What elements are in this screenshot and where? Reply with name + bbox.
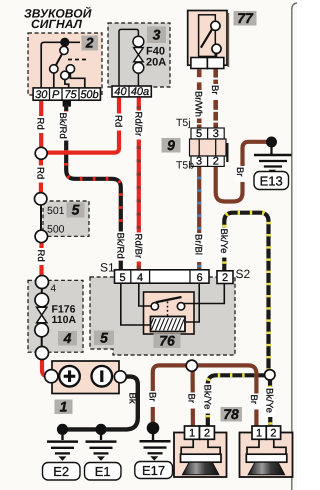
wire label Rd/Br bbox=[132, 111, 144, 140]
svg-text:50b: 50b bbox=[80, 89, 98, 101]
svg-text:3: 3 bbox=[196, 156, 202, 168]
component label 9 bbox=[162, 138, 181, 153]
component label 78 bbox=[221, 407, 243, 422]
fuse F40 internals bbox=[119, 29, 138, 86]
component label 3 bbox=[147, 27, 166, 44]
horn 1 box bbox=[174, 433, 227, 478]
svg-text:1: 1 bbox=[60, 398, 68, 414]
svg-text:Br: Br bbox=[234, 167, 245, 177]
E13 box bbox=[254, 172, 289, 190]
horn switch 77 body bbox=[188, 11, 227, 66]
svg-text:3: 3 bbox=[213, 128, 219, 140]
svg-text:110A: 110A bbox=[52, 314, 77, 326]
terminal circle fuse501 bottom bbox=[35, 230, 47, 242]
wire Bk/Ye relay pin2 to junction bbox=[224, 213, 268, 370]
svg-text:5: 5 bbox=[72, 202, 80, 218]
svg-text:Rd: Rd bbox=[35, 250, 46, 262]
svg-text:4: 4 bbox=[51, 284, 57, 295]
connector 9 T5j pin row bbox=[191, 128, 224, 139]
svg-text:Br/Wh: Br/Wh bbox=[193, 91, 204, 117]
switch arm bbox=[56, 54, 62, 65]
junction circle BkYe bus bbox=[265, 370, 275, 380]
wire label Br bbox=[146, 391, 158, 407]
svg-text:3: 3 bbox=[153, 27, 161, 43]
ground E1 symbol bbox=[100, 429, 102, 440]
wire Bk/Rd switch pin75 to relay pin5 bbox=[66, 104, 121, 270]
terminal circle fuse501 top bbox=[35, 193, 47, 205]
wire label Bk/Rd bbox=[57, 112, 69, 141]
svg-text:P: P bbox=[52, 89, 60, 101]
svg-text:Br/Bl: Br/Bl bbox=[193, 234, 204, 255]
relay 76 inner box bbox=[144, 292, 195, 334]
connector 9 body bbox=[226, 143, 228, 162]
wire label Rd/Br bbox=[132, 233, 144, 262]
svg-text:Bk/Ye: Bk/Ye bbox=[263, 388, 274, 413]
relay wiring pin5 to coil left bbox=[121, 283, 151, 325]
svg-text:6: 6 bbox=[196, 272, 202, 284]
wire Br junction drop to horn1 pin1 bbox=[191, 370, 195, 426]
svg-text:E2: E2 bbox=[53, 464, 69, 479]
svg-text:5: 5 bbox=[196, 128, 202, 140]
node dot switch 2 bbox=[60, 38, 69, 47]
wire Br/Bl T5b pin3 to relay pin6 bbox=[197, 166, 201, 270]
fuse F176 symbol bbox=[36, 276, 49, 289]
component label 77 bbox=[234, 11, 257, 26]
E17 box bbox=[135, 462, 173, 479]
horn 2 pin boxes bbox=[252, 426, 266, 439]
svg-text:5: 5 bbox=[100, 329, 108, 345]
junction circle Br bus bbox=[186, 360, 197, 371]
svg-text:Bk/Ye: Bk/Ye bbox=[218, 229, 229, 254]
wire contact E to pin 75 bbox=[65, 80, 69, 89]
contact circle D bbox=[66, 65, 74, 73]
wire Br ground bus E17 to horn2 pin1 bbox=[153, 365, 257, 426]
switch 77 pin boxes bbox=[191, 58, 208, 69]
svg-text:E13: E13 bbox=[260, 174, 283, 189]
battery plus symbol bbox=[59, 366, 80, 387]
relay connector strip bbox=[115, 270, 210, 283]
wire Br switch77 to T5j pin3 bbox=[213, 68, 218, 128]
relay wiring pin4 to contact L bbox=[139, 283, 152, 306]
E1 box bbox=[85, 463, 122, 481]
wire Br/Wh switch77 to T5j pin5 bbox=[197, 69, 202, 77]
svg-text:40: 40 bbox=[114, 86, 127, 98]
svg-text:4: 4 bbox=[63, 330, 72, 346]
svg-text:30: 30 bbox=[35, 89, 48, 101]
component label 2 bbox=[82, 36, 99, 51]
pin strip F40 bbox=[112, 86, 151, 97]
svg-text:СИГНАЛ: СИГНАЛ bbox=[31, 17, 83, 31]
wire contact B to pin P bbox=[53, 73, 55, 88]
svg-text:Bk/Rd: Bk/Rd bbox=[114, 233, 125, 259]
wire Rd fuse 501 to F176 bbox=[39, 242, 43, 277]
svg-text:1: 1 bbox=[189, 428, 195, 440]
svg-text:20A: 20A bbox=[146, 57, 166, 69]
wire Rd/Br F40 pin 40a to relay pin4 bbox=[137, 97, 141, 270]
component label 5 relay plate bbox=[94, 331, 114, 346]
ground E2 symbol bbox=[61, 429, 63, 440]
ground dot E17 bbox=[147, 422, 160, 435]
contact circle B bbox=[50, 65, 58, 73]
svg-text:77: 77 bbox=[237, 10, 254, 26]
svg-text:500: 500 bbox=[47, 224, 65, 236]
wire label Br bbox=[248, 394, 260, 410]
wire label Bk/Ye bbox=[218, 228, 230, 258]
wire Rd junction to fuse 501 bbox=[39, 159, 43, 195]
svg-text:Br: Br bbox=[146, 392, 157, 402]
wire Bk/Ye junction to horn2 pin2 bbox=[268, 380, 272, 427]
connector 9 T5b pin row bbox=[191, 156, 224, 166]
svg-text:E17: E17 bbox=[142, 463, 165, 478]
wire Bk/Ye junction to horn1 pin2 bbox=[208, 375, 265, 426]
fuse F176 box 4 dashed bbox=[28, 280, 83, 352]
ground E17 symbol bbox=[152, 428, 154, 440]
fuse 501 link bbox=[40, 205, 42, 231]
relay actuation dotted bbox=[167, 302, 169, 317]
svg-text:2: 2 bbox=[270, 428, 276, 440]
wire label Br bbox=[209, 84, 221, 100]
wire label Br bbox=[234, 166, 246, 182]
battery terminal right bbox=[114, 371, 126, 383]
relay contact R bbox=[177, 303, 184, 310]
wire label Rd bbox=[113, 114, 125, 131]
svg-text:501: 501 bbox=[47, 205, 65, 217]
svg-text:Rd: Rd bbox=[35, 118, 46, 130]
ground dot E1 bbox=[95, 424, 106, 435]
mechanical linkage dashed bbox=[68, 59, 88, 61]
wire Rd F176 to battery plus bbox=[42, 359, 48, 376]
component label 1 bbox=[55, 400, 73, 415]
component label 4 bbox=[58, 331, 77, 346]
svg-text:76: 76 bbox=[159, 332, 175, 348]
fuse 501/500 box dashed bbox=[43, 201, 89, 236]
wire label Rd bbox=[35, 166, 47, 183]
pin strip switch 2 bbox=[33, 88, 100, 100]
component label 5 fuse holder bbox=[67, 203, 85, 218]
relay pin2 box S2 bbox=[217, 271, 233, 284]
svg-text:Br: Br bbox=[248, 395, 259, 405]
wire Rd junction to F40 pin 40 bbox=[46, 97, 119, 153]
switch 77 arm bbox=[201, 28, 213, 48]
wire label Bk bbox=[126, 393, 137, 404]
wire Bk battery minus to ground bus E2/E1 bbox=[62, 377, 138, 430]
relay wiring pin6 to coil right bbox=[185, 283, 200, 322]
ground dot E2 bbox=[57, 424, 68, 435]
horn 2 box bbox=[240, 433, 293, 478]
relay wiring pin2 to contact R bbox=[182, 283, 225, 304]
wire label Br/Wh bbox=[193, 91, 205, 118]
svg-text:Br: Br bbox=[209, 85, 220, 95]
svg-text:S2: S2 bbox=[236, 267, 251, 281]
svg-text:Bk/Ye: Bk/Ye bbox=[201, 385, 212, 410]
switch 77 contact bottom bbox=[212, 44, 221, 53]
horn 1 pin boxes bbox=[185, 426, 200, 439]
svg-text:Rd: Rd bbox=[113, 115, 124, 127]
svg-text:4: 4 bbox=[137, 272, 143, 284]
switch 77 contact top bbox=[211, 21, 220, 30]
svg-text:40a: 40a bbox=[131, 86, 149, 98]
wire contact D to pin 50b bbox=[70, 73, 84, 88]
wire Rd pin30 to junction bbox=[39, 100, 43, 149]
ground E13 symbol bbox=[270, 147, 272, 154]
fuse symbol F40 bbox=[133, 36, 144, 47]
battery terminal left bbox=[45, 370, 58, 383]
svg-text:T5b: T5b bbox=[176, 160, 194, 172]
svg-text:9: 9 bbox=[167, 137, 175, 153]
svg-text:5: 5 bbox=[119, 272, 125, 284]
junction node red 3-way bbox=[35, 147, 47, 159]
fuse F40 box 3 dashed bbox=[108, 23, 170, 87]
wire label Bk/Rd bbox=[114, 232, 126, 261]
svg-text:Bk/Rd: Bk/Rd bbox=[57, 113, 68, 139]
wire label Bk/Ye bbox=[263, 387, 275, 417]
wire label Br/Bl bbox=[193, 233, 205, 262]
contact circle A bbox=[60, 46, 68, 54]
svg-text:Rd: Rd bbox=[35, 167, 46, 179]
ignition switch 2 internals bbox=[41, 42, 80, 88]
horn 1 symbol bbox=[181, 439, 220, 454]
E2 box bbox=[43, 463, 81, 481]
wire label Bk/Ye bbox=[201, 384, 213, 414]
wire Br T5b pin2 to ground E13 bbox=[216, 142, 267, 202]
svg-text:75: 75 bbox=[64, 89, 77, 101]
svg-text:Rd/Br: Rd/Br bbox=[132, 112, 143, 137]
battery minus symbol bbox=[92, 366, 113, 387]
svg-text:2: 2 bbox=[222, 272, 228, 284]
relay housing box 5 dashed bbox=[90, 277, 235, 355]
svg-text:T5j: T5j bbox=[176, 117, 191, 129]
svg-text:1: 1 bbox=[256, 428, 262, 440]
relay contact L bbox=[151, 303, 158, 310]
svg-text:2: 2 bbox=[204, 428, 210, 440]
wire label Rd bbox=[35, 248, 47, 265]
component label 76 bbox=[154, 334, 181, 349]
svg-text:Rd/Br: Rd/Br bbox=[132, 234, 143, 259]
terminal square pin 75 bbox=[63, 100, 71, 107]
svg-text:S1: S1 bbox=[100, 261, 115, 275]
svg-text:2: 2 bbox=[213, 156, 219, 168]
svg-text:78: 78 bbox=[223, 406, 239, 422]
ignition switch 2 dashed box bbox=[28, 33, 102, 95]
battery box 1 bbox=[52, 361, 119, 394]
svg-text:2: 2 bbox=[85, 35, 94, 51]
switch 77 inner frame bbox=[199, 15, 216, 57]
ground E13 dot bbox=[266, 137, 277, 148]
relay coil bbox=[151, 317, 186, 332]
svg-text:Bk: Bk bbox=[126, 393, 137, 404]
horn 2 symbol bbox=[247, 439, 286, 454]
wire label Rd bbox=[35, 116, 47, 133]
contact circle E bbox=[61, 71, 69, 79]
page edge line right bbox=[292, 3, 297, 9]
wire label Br bbox=[186, 393, 198, 409]
svg-text:Br: Br bbox=[186, 394, 197, 404]
svg-text:E1: E1 bbox=[95, 464, 111, 479]
relay arm bbox=[156, 297, 182, 302]
